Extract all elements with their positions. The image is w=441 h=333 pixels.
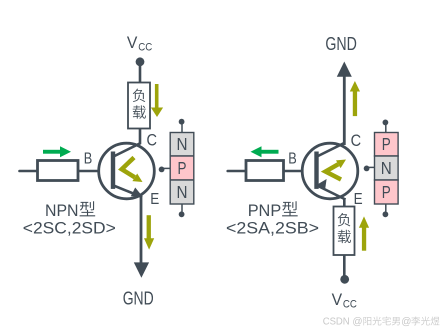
svg-text:<2SC,2SD>: <2SC,2SD>	[23, 219, 116, 237]
svg-text:P: P	[382, 134, 391, 154]
svg-text:P: P	[178, 158, 187, 178]
svg-text:V: V	[332, 291, 343, 309]
svg-text:CC: CC	[343, 298, 357, 310]
svg-text:@: @	[352, 316, 362, 327]
svg-text:V: V	[127, 34, 137, 52]
svg-text:<2SA,2SB>: <2SA,2SB>	[226, 219, 319, 237]
svg-text:B: B	[288, 151, 297, 168]
svg-text:E: E	[354, 191, 363, 208]
svg-text:C: C	[147, 132, 158, 150]
svg-text:CSDN: CSDN	[323, 316, 350, 327]
svg-text:GND: GND	[123, 289, 154, 309]
svg-text:CC: CC	[138, 41, 152, 53]
svg-text:N: N	[177, 134, 188, 154]
svg-text:GND: GND	[325, 34, 357, 54]
svg-text:B: B	[84, 151, 93, 168]
svg-text:C: C	[351, 132, 362, 150]
svg-text:PNP: PNP	[248, 202, 282, 220]
svg-text:P: P	[382, 182, 391, 202]
svg-text:NPN: NPN	[45, 202, 79, 220]
svg-text:@: @	[401, 316, 411, 327]
svg-text:N: N	[381, 158, 392, 178]
svg-text:N: N	[177, 182, 188, 202]
svg-text:E: E	[150, 191, 159, 208]
